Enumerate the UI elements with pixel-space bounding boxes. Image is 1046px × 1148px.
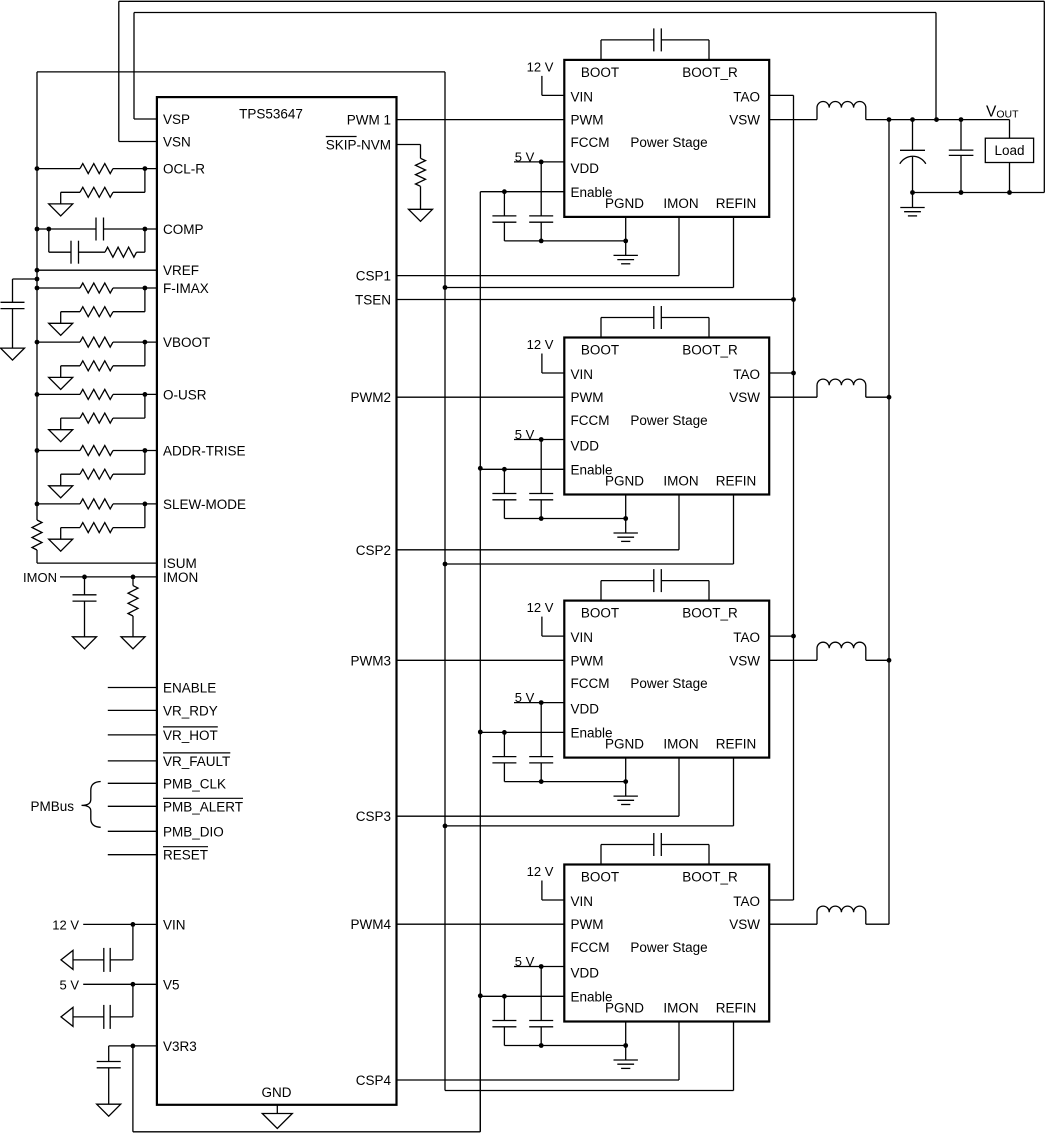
svg-text:VIN: VIN — [571, 89, 594, 104]
svg-text:ISUM: ISUM — [163, 556, 197, 571]
svg-text:Power Stage: Power Stage — [630, 676, 707, 691]
svg-text:TSEN: TSEN — [355, 293, 391, 308]
svg-text:BOOT: BOOT — [581, 606, 619, 621]
svg-text:COMP: COMP — [163, 222, 204, 237]
svg-text:VIN: VIN — [163, 917, 186, 932]
svg-text:TAO: TAO — [733, 630, 760, 645]
svg-text:FCCM: FCCM — [571, 940, 610, 955]
svg-text:PWM: PWM — [571, 917, 604, 932]
svg-text:Power Stage: Power Stage — [630, 413, 707, 428]
svg-text:VSN: VSN — [163, 135, 191, 150]
svg-text:REFIN: REFIN — [716, 1001, 757, 1016]
svg-text:RESET: RESET — [163, 848, 208, 863]
svg-text:BOOT: BOOT — [581, 870, 619, 885]
svg-text:CSP2: CSP2 — [356, 543, 391, 558]
svg-text:12 V: 12 V — [527, 59, 554, 74]
svg-text:VSP: VSP — [163, 112, 190, 127]
svg-text:PWM: PWM — [571, 390, 604, 405]
svg-text:VSW: VSW — [729, 390, 760, 405]
svg-text:FCCM: FCCM — [571, 676, 610, 691]
svg-text:VIN: VIN — [571, 630, 594, 645]
svg-text:VDD: VDD — [571, 439, 600, 454]
svg-text:TAO: TAO — [733, 89, 760, 104]
svg-text:VSW: VSW — [729, 113, 760, 128]
svg-text:IMON: IMON — [663, 196, 698, 211]
svg-text:12 V: 12 V — [527, 337, 554, 352]
svg-text:BOOT_R: BOOT_R — [682, 343, 738, 358]
svg-text:GND: GND — [262, 1085, 292, 1100]
svg-text:BOOT_R: BOOT_R — [682, 65, 738, 80]
svg-text:IMON: IMON — [663, 474, 698, 489]
svg-text:VDD: VDD — [571, 161, 600, 176]
svg-text:PGND: PGND — [605, 196, 644, 211]
svg-text:TAO: TAO — [733, 367, 760, 382]
svg-text:IMON: IMON — [23, 570, 57, 585]
svg-text:TPS53647: TPS53647 — [239, 107, 303, 122]
svg-text:VR_HOT: VR_HOT — [163, 728, 218, 743]
svg-text:O-USR: O-USR — [163, 387, 207, 402]
svg-text:CSP1: CSP1 — [356, 269, 391, 284]
svg-text:BOOT_R: BOOT_R — [682, 870, 738, 885]
svg-text:SKIP-NVM: SKIP-NVM — [326, 138, 391, 153]
svg-text:VBOOT: VBOOT — [163, 335, 210, 350]
svg-text:REFIN: REFIN — [716, 737, 757, 752]
svg-text:12 V: 12 V — [52, 917, 79, 932]
svg-text:VR_FAULT: VR_FAULT — [163, 754, 230, 769]
svg-text:VDD: VDD — [571, 966, 600, 981]
svg-text:V3R3: V3R3 — [163, 1039, 197, 1054]
svg-text:ENABLE: ENABLE — [163, 681, 216, 696]
svg-text:FCCM: FCCM — [571, 413, 610, 428]
svg-text:FCCM: FCCM — [571, 135, 610, 150]
svg-text:VR_RDY: VR_RDY — [163, 703, 218, 718]
svg-text:PMBus: PMBus — [30, 799, 74, 814]
svg-text:IMON: IMON — [163, 570, 198, 585]
svg-text:BOOT_R: BOOT_R — [682, 606, 738, 621]
svg-text:12 V: 12 V — [527, 864, 554, 879]
svg-text:OCL-R: OCL-R — [163, 162, 205, 177]
svg-text:PWM 1: PWM 1 — [347, 113, 391, 128]
svg-text:ADDR-TRISE: ADDR-TRISE — [163, 444, 246, 459]
svg-text:REFIN: REFIN — [716, 196, 757, 211]
svg-text:PWM: PWM — [571, 113, 604, 128]
svg-text:IMON: IMON — [663, 1001, 698, 1016]
svg-text:F-IMAX: F-IMAX — [163, 281, 209, 296]
svg-text:CSP3: CSP3 — [356, 809, 391, 824]
svg-text:BOOT: BOOT — [581, 65, 619, 80]
svg-text:BOOT: BOOT — [581, 343, 619, 358]
svg-text:PMB_CLK: PMB_CLK — [163, 776, 226, 791]
svg-text:VIN: VIN — [571, 894, 594, 909]
svg-text:5 V: 5 V — [59, 977, 79, 992]
svg-text:VDD: VDD — [571, 702, 600, 717]
svg-text:VSW: VSW — [729, 917, 760, 932]
svg-text:PGND: PGND — [605, 737, 644, 752]
svg-text:Power Stage: Power Stage — [630, 940, 707, 955]
svg-text:V5: V5 — [163, 977, 180, 992]
svg-text:Load: Load — [994, 143, 1024, 158]
svg-text:PMB_DIO: PMB_DIO — [163, 824, 224, 839]
svg-text:VIN: VIN — [571, 367, 594, 382]
svg-text:IMON: IMON — [663, 737, 698, 752]
svg-text:REFIN: REFIN — [716, 474, 757, 489]
svg-text:CSP4: CSP4 — [356, 1073, 392, 1088]
svg-text:SLEW-MODE: SLEW-MODE — [163, 497, 246, 512]
svg-text:PGND: PGND — [605, 1001, 644, 1016]
svg-text:TAO: TAO — [733, 894, 760, 909]
svg-text:PGND: PGND — [605, 474, 644, 489]
svg-text:Power Stage: Power Stage — [630, 135, 707, 150]
svg-text:PMB_ALERT: PMB_ALERT — [163, 799, 243, 814]
svg-text:VREF: VREF — [163, 263, 199, 278]
svg-text:PWM3: PWM3 — [351, 653, 392, 668]
svg-text:VSW: VSW — [729, 653, 760, 668]
svg-text:PWM4: PWM4 — [351, 917, 392, 932]
svg-text:PWM2: PWM2 — [351, 390, 392, 405]
svg-text:12 V: 12 V — [527, 600, 554, 615]
svg-text:PWM: PWM — [571, 653, 604, 668]
